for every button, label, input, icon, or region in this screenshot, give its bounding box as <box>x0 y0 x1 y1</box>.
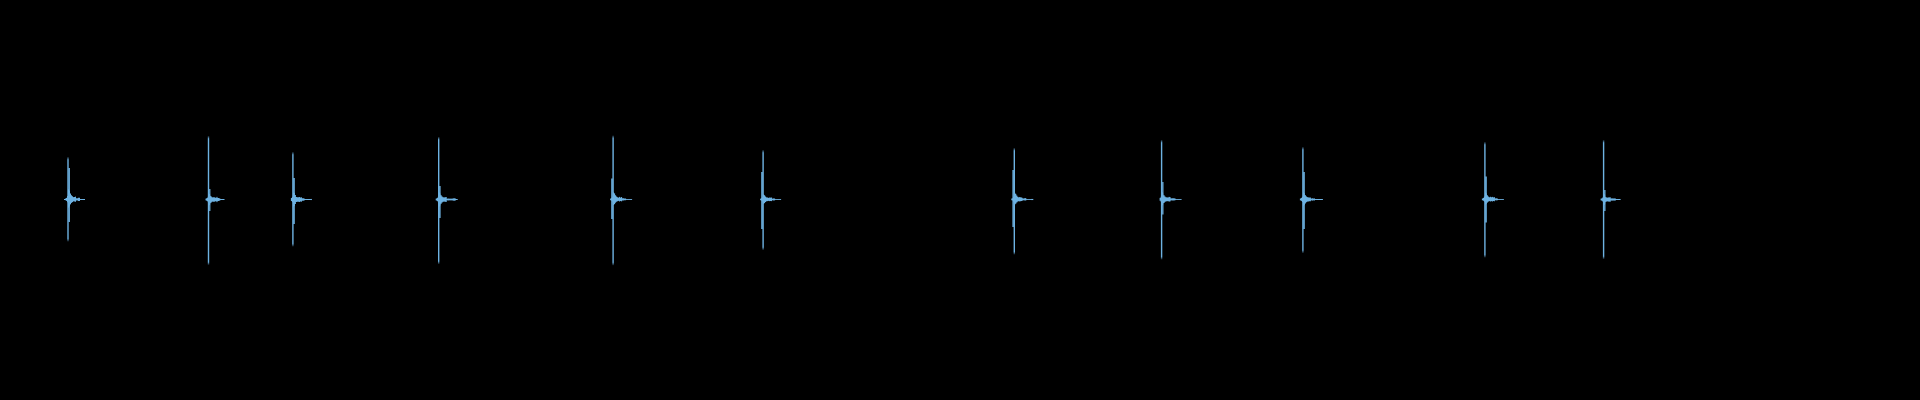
waveform spike 8 <box>1160 140 1182 260</box>
waveform spike 3 <box>291 152 312 247</box>
waveform spike 5 <box>610 136 632 266</box>
waveform spike 6 <box>760 150 781 250</box>
waveform spike 10 <box>1482 142 1504 258</box>
waveform spike 11 <box>1601 140 1621 259</box>
waveform spike 9 <box>1300 147 1323 253</box>
waveform spike 7 <box>1011 148 1033 255</box>
waveform spike 4 <box>436 137 458 264</box>
waveform spike 2 <box>206 136 225 265</box>
waveform spike 1 <box>64 157 85 242</box>
